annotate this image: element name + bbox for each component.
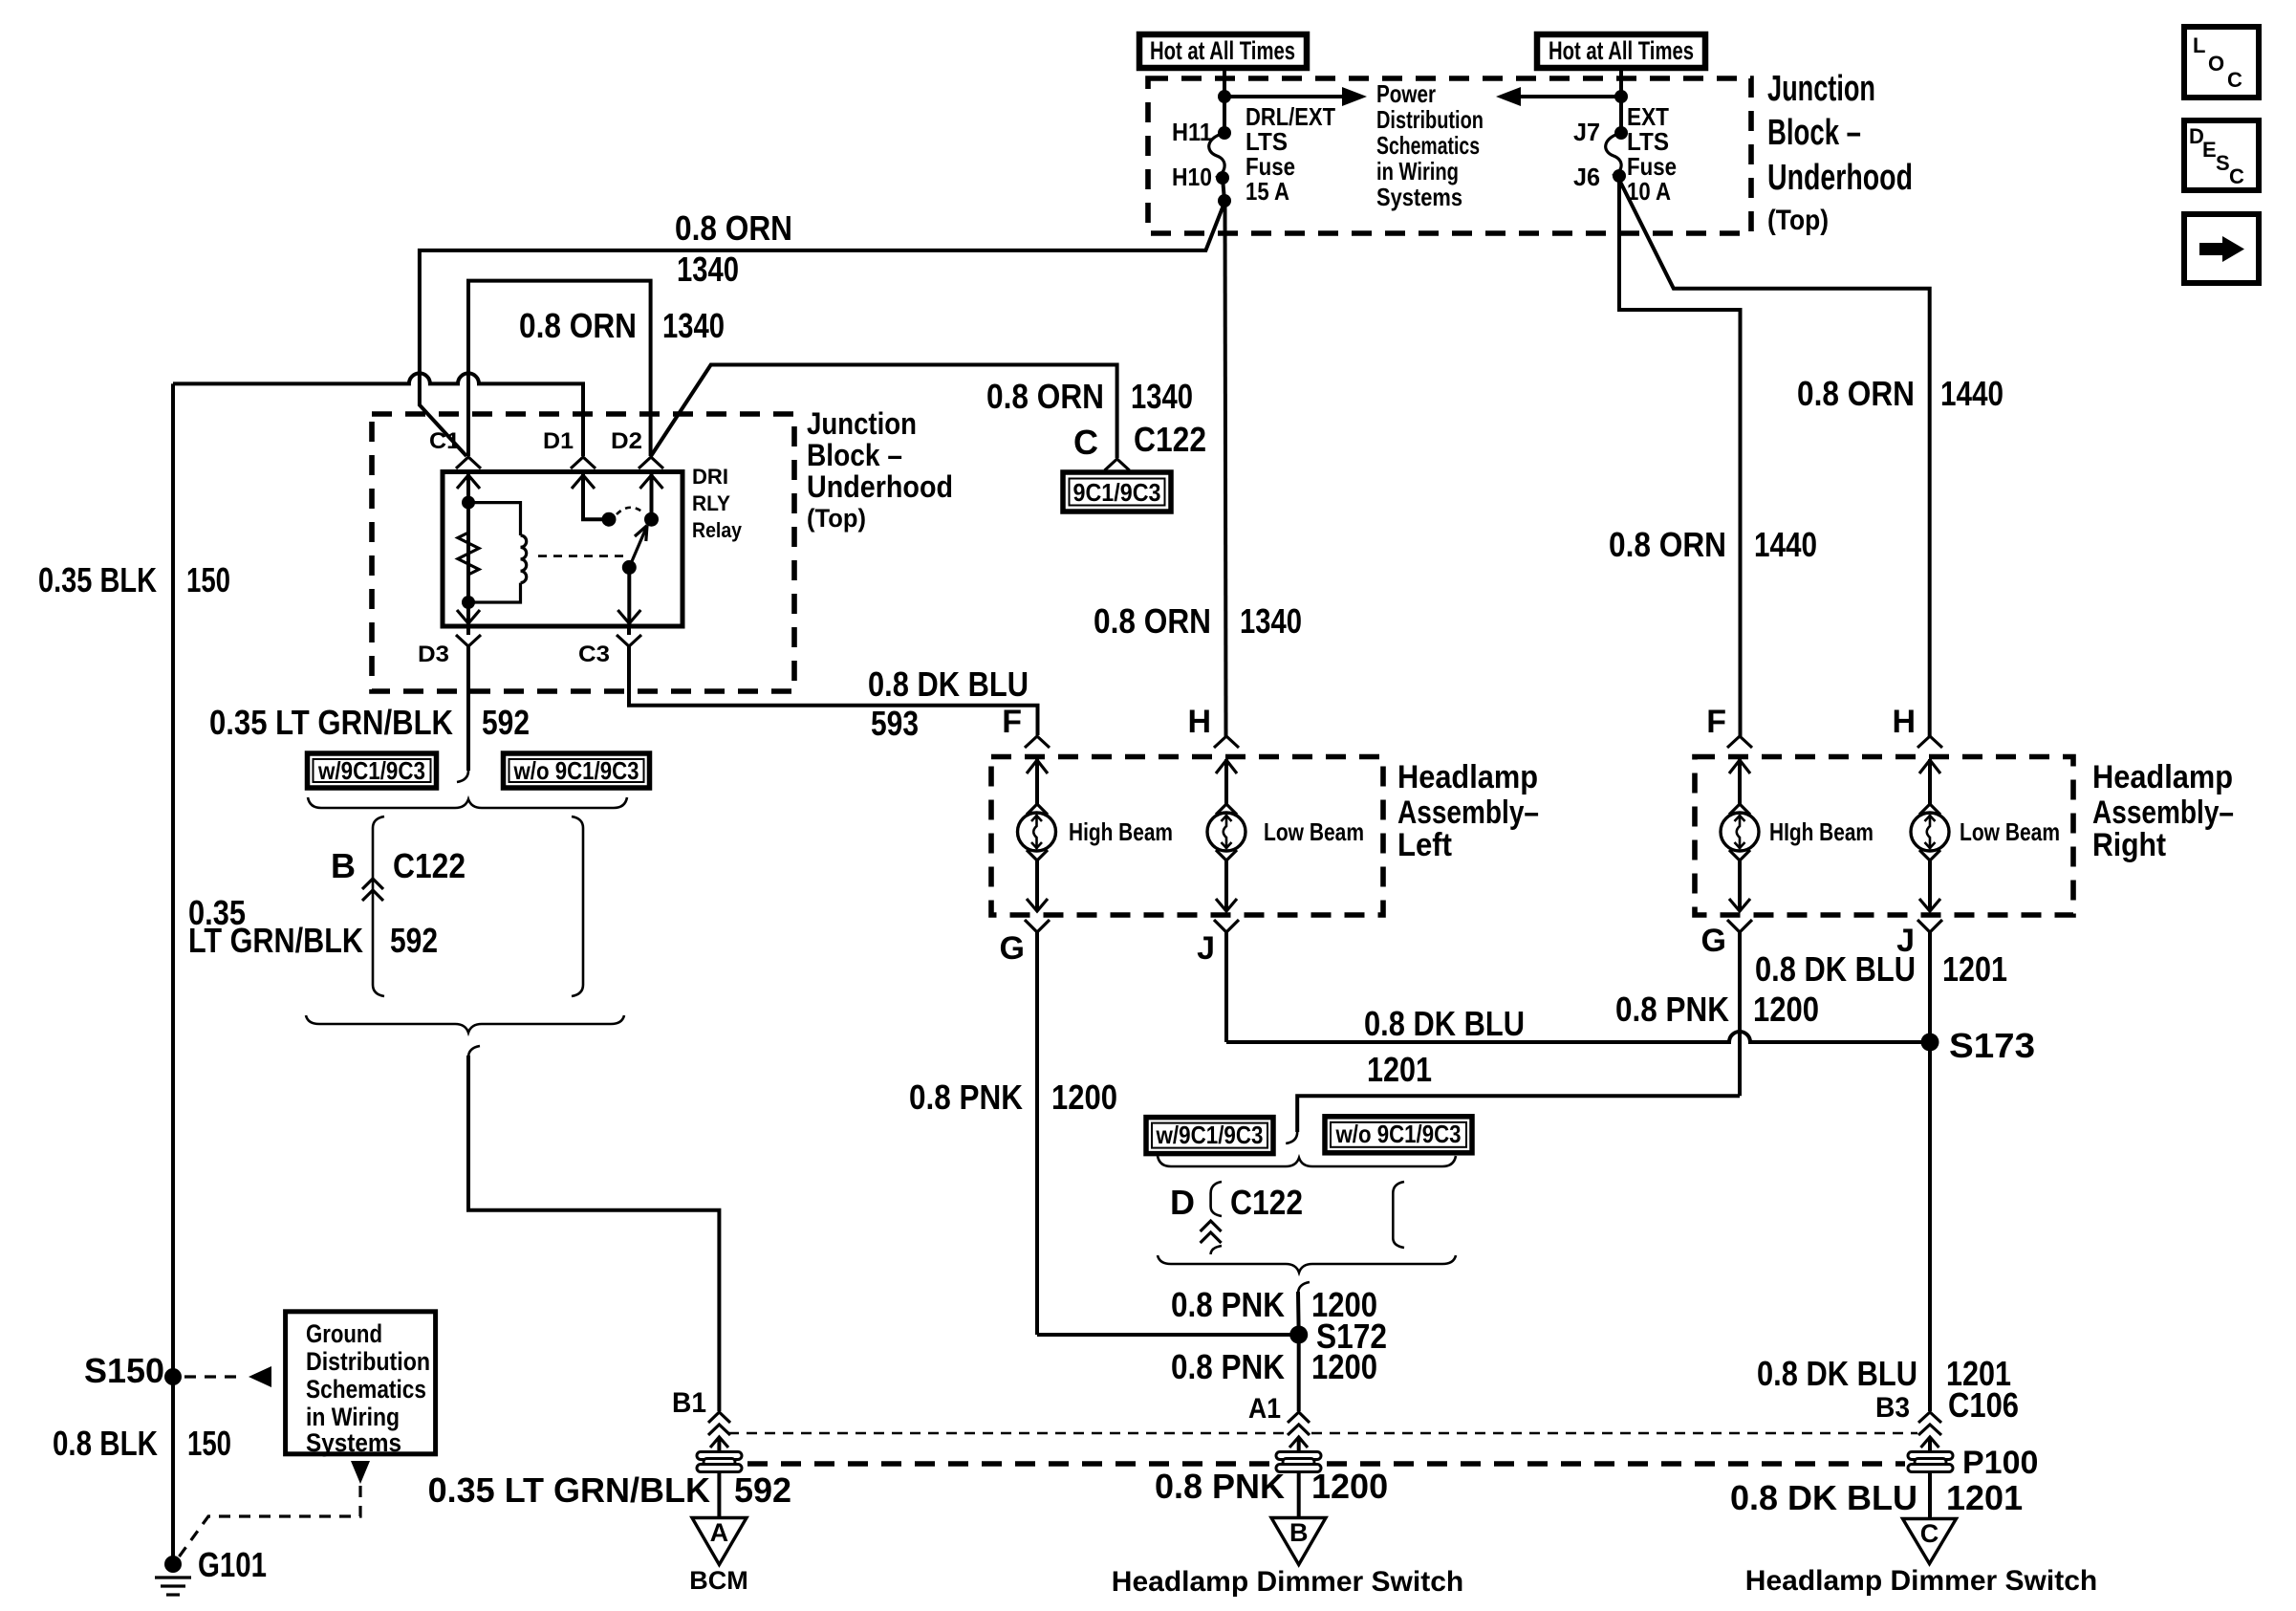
svg-text:J7: J7: [1573, 118, 1600, 146]
low beam bulb left: [1207, 759, 1245, 911]
svg-text:D1: D1: [543, 428, 574, 454]
svg-text:Headlamp Dimmer Switch: Headlamp Dimmer Switch: [1745, 1565, 2097, 1597]
svg-text:1440: 1440: [1754, 525, 1817, 564]
svg-text:1340: 1340: [1240, 601, 1302, 641]
wire down to S172: [1296, 1292, 1301, 1335]
svg-text:C: C: [1920, 1519, 1939, 1548]
w/o branch connector column (middle): [1393, 1182, 1404, 1248]
wire long vertical to left headlamp H: [1225, 201, 1226, 736]
high beam bulb left: [1018, 759, 1056, 911]
svg-text:1200: 1200: [1311, 1467, 1388, 1506]
svg-text:0.8 BLK: 0.8 BLK: [53, 1424, 158, 1463]
fuse name EXT LTS Fuse 10 A: [1627, 102, 1677, 206]
svg-text:0.8 DK BLU: 0.8 DK BLU: [1730, 1478, 1917, 1517]
dashed throw arc between switch contacts: [617, 508, 644, 514]
svg-text:Hot at All Times: Hot at All Times: [1549, 36, 1694, 65]
svg-text:w/o 9C1/9C3: w/o 9C1/9C3: [513, 756, 639, 785]
wire 0.8 ORN 1340 inverted U C1 to D2: [468, 281, 651, 456]
svg-text:w/o 9C1/9C3: w/o 9C1/9C3: [1335, 1120, 1462, 1148]
firewall thick dashed line: [747, 1461, 1905, 1467]
svg-text:1201: 1201: [1367, 1050, 1432, 1089]
svg-text:RLY: RLY: [692, 491, 730, 515]
svg-text:1200: 1200: [1051, 1078, 1117, 1117]
svg-text:D3: D3: [418, 642, 449, 667]
arrow left to power distribution text: [1496, 87, 1621, 106]
label 0.8 PNK 1200 (below grommet): [1155, 1467, 1388, 1506]
svg-text:10 A: 10 A: [1627, 177, 1671, 206]
wire 0.8 ORN 1340 from fuse to relay C1: [420, 203, 1224, 456]
svg-text:0.8 DK BLU: 0.8 DK BLU: [868, 664, 1029, 704]
svg-text:High Beam: High Beam: [1069, 817, 1173, 846]
svg-text:Block –: Block –: [807, 438, 902, 472]
label 0.8 DK BLU 593: [868, 664, 1029, 743]
wire 0.35 BLK 150 left vertical: [171, 383, 175, 1564]
wire D2 diagonal up to C122 connector C: [651, 365, 1117, 459]
svg-text:G: G: [1000, 930, 1025, 967]
svg-text:1340: 1340: [1131, 377, 1193, 416]
label 0.35 LT GRN/BLK 592 (two line): [188, 893, 438, 960]
low beam bulb right: [1911, 759, 1949, 911]
svg-text:B: B: [331, 846, 356, 885]
svg-text:Power: Power: [1376, 79, 1436, 108]
svg-text:w/9C1/9C3: w/9C1/9C3: [1156, 1121, 1264, 1149]
label 0.35 LT GRN/BLK 592 (BCM): [428, 1470, 791, 1510]
forward arrow icon box: [2184, 214, 2259, 283]
junction block relay side label: [807, 406, 953, 533]
svg-text:9C1/9C3: 9C1/9C3: [1073, 478, 1161, 507]
svg-text:1340: 1340: [677, 250, 739, 289]
svg-text:0.8 PNK: 0.8 PNK: [1171, 1285, 1285, 1324]
9C1/9C3 tag box: [1063, 472, 1171, 512]
relay coil top node: [462, 496, 475, 510]
svg-text:Relay: Relay: [692, 518, 743, 542]
svg-text:0.8 ORN: 0.8 ORN: [1797, 374, 1915, 413]
svg-text:1200: 1200: [1311, 1347, 1377, 1386]
svg-text:C: C: [1073, 423, 1098, 462]
svg-text:w/9C1/9C3: w/9C1/9C3: [317, 756, 425, 785]
wire hot1 to fuse H11: [1223, 68, 1226, 133]
pin H chevron (left hl): [1214, 736, 1239, 748]
svg-text:(Top): (Top): [1767, 205, 1829, 236]
pin F chevron (right hl): [1727, 736, 1752, 748]
svg-text:0.8 PNK: 0.8 PNK: [1615, 990, 1729, 1029]
w/9C1/9C3 tag box (left): [308, 753, 437, 788]
svg-text:0.8 ORN: 0.8 ORN: [1609, 525, 1726, 564]
svg-text:C: C: [2229, 164, 2244, 188]
svg-text:Underhood: Underhood: [807, 469, 953, 504]
svg-text:O: O: [2208, 52, 2224, 76]
svg-text:592: 592: [482, 703, 530, 742]
DESC icon box: [2184, 120, 2259, 190]
B3 connector chevrons and arrow: [1918, 1412, 1941, 1450]
wire J6 diagonal to right headlamp H feed: [1619, 180, 1930, 736]
svg-text:H: H: [1187, 704, 1211, 740]
B1 pass-through grommet: [697, 1452, 742, 1472]
svg-text:0.8 ORN: 0.8 ORN: [675, 208, 792, 248]
svg-text:0.8 DK BLU: 0.8 DK BLU: [1757, 1354, 1917, 1393]
svg-text:HIgh Beam: HIgh Beam: [1769, 817, 1874, 846]
svg-text:S173: S173: [1949, 1026, 2035, 1065]
junction block underhood (top) dashed box: [1148, 78, 1751, 233]
D C122 connector column: [1201, 1182, 1222, 1254]
label 0.8 ORN 1340 (C122 wire): [986, 377, 1193, 416]
svg-text:J: J: [1197, 930, 1215, 967]
A1 pass-through grommet: [1276, 1452, 1321, 1472]
power distribution schematics text: [1376, 79, 1484, 211]
svg-text:S150: S150: [84, 1351, 164, 1390]
svg-text:592: 592: [734, 1470, 791, 1510]
upper brace of C122 variants (left): [308, 797, 627, 808]
fuse name DRL/EXT LTS Fuse 15 A: [1245, 102, 1335, 206]
coil inside relay: [468, 503, 527, 602]
svg-text:B3: B3: [1875, 1392, 1910, 1424]
wire 0.8 DK BLU 1201 left J to S173 with hop: [1226, 1032, 1930, 1042]
pin C1 chevron: [456, 457, 481, 468]
wire 592 down to BCM B1: [468, 1056, 719, 1411]
label D C122: [1170, 1183, 1303, 1222]
relay coil bottom node: [462, 596, 475, 609]
label 0.8 PNK 1200 (below S172): [1171, 1347, 1377, 1386]
svg-text:Schematics: Schematics: [306, 1375, 426, 1404]
svg-text:C122: C122: [1134, 420, 1206, 459]
wire grommet to BCM triangle: [717, 1472, 721, 1519]
svg-text:Left: Left: [1397, 827, 1452, 863]
label B C122: [331, 846, 466, 885]
svg-text:Low Beam: Low Beam: [1264, 817, 1364, 846]
pin label B3 C106: [1875, 1385, 2019, 1425]
pin D3 chevron: [456, 626, 481, 646]
fuse DRL/EXT LTS 15A symbol: [1209, 126, 1231, 185]
fuse EXT LTS 10A symbol: [1606, 126, 1628, 183]
svg-text:F: F: [1706, 704, 1726, 740]
svg-text:0.8 PNK: 0.8 PNK: [1171, 1347, 1285, 1386]
svg-text:0.8 PNK: 0.8 PNK: [909, 1078, 1023, 1117]
label 0.8 ORN 1440 (right headlamp H feed): [1797, 374, 2004, 413]
relay C3 internal line: [617, 560, 640, 624]
firewall fine dashed line: [728, 1432, 1917, 1435]
pin J chevron (left hl): [1214, 920, 1239, 1042]
lower brace of C122 variants (middle): [1158, 1255, 1456, 1273]
headlamp assembly right dashed box: [1695, 757, 2073, 916]
svg-text:H11: H11: [1172, 118, 1212, 146]
wire end curl above C122 D: [1286, 1132, 1297, 1143]
svg-text:D2: D2: [611, 428, 642, 454]
pin C3 chevron: [617, 626, 641, 646]
wire end curl below middle brace: [1298, 1282, 1310, 1294]
svg-text:BCM: BCM: [689, 1566, 748, 1595]
label 0.8 BLK 150: [53, 1424, 231, 1463]
svg-text:1200: 1200: [1753, 990, 1819, 1029]
svg-text:0.35 LT GRN/BLK: 0.35 LT GRN/BLK: [209, 703, 453, 742]
svg-text:S: S: [2216, 151, 2230, 175]
label 0.8 PNK 1200 (right G): [1615, 990, 1819, 1029]
label 0.8 ORN 1440 (right headlamp F feed): [1609, 525, 1817, 564]
w/o 9C1/9C3 tag box (left): [504, 753, 650, 788]
label 0.8 ORN 1340 (top long wire): [675, 208, 792, 289]
relay D1 internal line to switch pivot: [572, 474, 617, 527]
svg-text:in Wiring: in Wiring: [306, 1403, 400, 1431]
label 0.8 DK BLU 1201 (below P100): [1730, 1478, 2023, 1517]
w/o branch connector column (left): [572, 816, 583, 996]
wire hot2 to fuse J7: [1619, 68, 1623, 133]
svg-text:150: 150: [187, 1424, 231, 1463]
splice S172: [1289, 1317, 1387, 1356]
svg-text:Block –: Block –: [1767, 113, 1861, 153]
svg-text:0.35 BLK: 0.35 BLK: [38, 560, 157, 599]
svg-text:D: D: [1170, 1183, 1195, 1222]
dashed arrow ground box down to G101: [178, 1461, 370, 1558]
svg-text:Headlamp: Headlamp: [1397, 759, 1538, 795]
high beam bulb right: [1721, 759, 1759, 911]
svg-text:Junction: Junction: [807, 406, 917, 441]
label C C122: [1073, 420, 1206, 462]
hot at all times box 2: [1537, 34, 1705, 68]
label 0.35 BLK 150: [38, 560, 230, 599]
svg-text:LT GRN/BLK: LT GRN/BLK: [188, 921, 363, 960]
w/9C1/9C3 tag box (middle): [1146, 1118, 1273, 1154]
node above J7: [1614, 90, 1628, 103]
svg-text:1201: 1201: [1946, 1354, 2011, 1393]
label 0.8 ORN 1340 (U wire): [519, 306, 725, 345]
w/o 9C1/9C3 tag box (middle): [1325, 1117, 1472, 1153]
LOC icon box: [2184, 27, 2259, 98]
svg-text:C: C: [2227, 68, 2242, 92]
svg-text:E: E: [2202, 138, 2217, 162]
junction block relay dashed box: [372, 414, 794, 691]
svg-text:L: L: [2193, 33, 2205, 57]
label 0.8 ORN 1340 (left headlamp H feed): [1094, 601, 1302, 641]
svg-text:G: G: [1701, 923, 1726, 959]
svg-text:0.8 ORN: 0.8 ORN: [1094, 601, 1211, 641]
headlamp assembly right label: [2092, 759, 2234, 863]
svg-text:H: H: [1892, 704, 1916, 740]
svg-text:A: A: [710, 1518, 729, 1547]
label 0.8 DK BLU 1201 (above B3): [1757, 1354, 2011, 1393]
pin G chevron (right hl): [1727, 920, 1752, 1096]
P100 pass-through grommet: [1908, 1452, 1953, 1472]
pin H chevron (right hl): [1917, 736, 1942, 748]
wire H10 down to junction: [1223, 178, 1224, 201]
label 0.35 LT GRN/BLK 592 (at D3): [209, 703, 530, 742]
pin D2 chevron: [639, 457, 663, 468]
wire J6 to right headlamp F feed: [1619, 176, 1741, 736]
svg-text:P100: P100: [1962, 1445, 2038, 1481]
arrow to power distribution text: [1224, 87, 1367, 106]
svg-text:0.8 PNK: 0.8 PNK: [1155, 1467, 1285, 1506]
svg-text:1440: 1440: [1940, 374, 2004, 413]
upper brace of C122 variants (middle): [1158, 1156, 1456, 1166]
relay name DRI RLY Relay: [692, 465, 743, 542]
svg-text:Underhood: Underhood: [1767, 158, 1913, 198]
svg-text:G101: G101: [198, 1545, 267, 1584]
relay DRI RLY box: [443, 472, 682, 627]
label 0.8 DK BLU 1201 (right J): [1755, 949, 2007, 989]
pin G chevron (left hl): [1025, 920, 1050, 1335]
pin F chevron (left hl): [1025, 736, 1050, 748]
label 0.8 PNK 1200 (left G wire): [909, 1078, 1117, 1117]
wire grommet to dimmer switch triangle B: [1297, 1472, 1301, 1519]
wire D3 down to C122 area: [466, 646, 470, 771]
wire S173 down to B3: [1928, 1042, 1932, 1411]
splice S150: [84, 1351, 182, 1390]
splice S173: [1921, 1026, 2036, 1065]
headlamp assembly left label: [1397, 759, 1539, 863]
svg-text:C122: C122: [1230, 1183, 1303, 1222]
svg-text:Hot at All Times: Hot at All Times: [1150, 36, 1295, 65]
svg-text:(Top): (Top): [807, 504, 866, 533]
svg-text:Distribution: Distribution: [306, 1347, 430, 1376]
svg-text:B: B: [1289, 1518, 1309, 1547]
node below fuse: [1218, 194, 1231, 207]
svg-text:J6: J6: [1573, 163, 1600, 191]
wire right G down and left to C122 D area: [1297, 1096, 1740, 1132]
dimmer switch triangle connector C: [1903, 1519, 1957, 1564]
svg-text:15 A: 15 A: [1245, 177, 1289, 206]
pin J chevron (right hl): [1917, 920, 1942, 1042]
svg-text:592: 592: [390, 921, 438, 960]
node dot above H11: [1218, 90, 1231, 103]
wire S172 down to A1: [1297, 1335, 1301, 1411]
resistor inside relay: [458, 528, 479, 580]
svg-text:Systems: Systems: [1376, 183, 1462, 211]
label 0.8 DK BLU 1201 (horizontal): [1364, 1004, 1525, 1089]
svg-text:Headlamp Dimmer Switch: Headlamp Dimmer Switch: [1112, 1566, 1463, 1598]
junction block label (top): [1767, 69, 1913, 236]
pin D1 chevron: [571, 457, 596, 468]
svg-text:DRI: DRI: [692, 465, 728, 489]
svg-text:C3: C3: [578, 642, 610, 667]
svg-text:Assembly–: Assembly–: [2092, 795, 2234, 831]
svg-text:B1: B1: [672, 1387, 706, 1419]
svg-text:C122: C122: [393, 846, 466, 885]
wire from BLK top corner to relay D1 with hops: [173, 373, 583, 456]
ground G101: [155, 1545, 267, 1595]
svg-text:0.8 DK BLU: 0.8 DK BLU: [1364, 1004, 1525, 1043]
dimmer switch triangle connector B: [1271, 1518, 1326, 1565]
svg-text:Ground: Ground: [306, 1319, 382, 1348]
dashed arrow S150 to ground distribution box: [184, 1366, 271, 1387]
dashed mechanical link coil to lever: [538, 555, 623, 557]
wire C3 to left headlamp F: [629, 646, 1038, 735]
svg-text:593: 593: [871, 704, 919, 743]
svg-text:Assembly–: Assembly–: [1397, 795, 1539, 831]
wire grommet to dimmer switch triangle C: [1928, 1472, 1932, 1520]
headlamp assembly left dashed box: [991, 757, 1383, 916]
wire end curl below brace: [468, 1046, 480, 1057]
relay D2 internal line: [640, 474, 663, 527]
svg-text:A1: A1: [1248, 1393, 1281, 1425]
svg-text:150: 150: [186, 560, 230, 599]
svg-text:0.8 ORN: 0.8 ORN: [519, 306, 637, 345]
ground distribution schematics box: [286, 1312, 436, 1457]
lower brace of C122 variants (left): [306, 1015, 624, 1033]
B C122 connector column: [362, 816, 384, 996]
relay C1 internal line with arrows: [457, 474, 480, 624]
svg-text:Low Beam: Low Beam: [1960, 817, 2060, 846]
svg-text:Systems: Systems: [306, 1428, 401, 1457]
hot at all times box 1: [1139, 34, 1307, 68]
svg-text:0.8 DK BLU: 0.8 DK BLU: [1755, 949, 1916, 989]
svg-text:0.8 ORN: 0.8 ORN: [986, 377, 1104, 416]
svg-text:C1: C1: [429, 428, 460, 454]
svg-text:1340: 1340: [662, 306, 725, 345]
BCM triangle connector A: [692, 1518, 747, 1565]
label 0.8 PNK 1200 (above S172): [1171, 1285, 1377, 1324]
svg-text:Distribution: Distribution: [1376, 105, 1484, 134]
svg-text:1201: 1201: [1946, 1478, 2023, 1517]
svg-text:in Wiring: in Wiring: [1376, 157, 1459, 185]
wire left G to splice S172: [1037, 1333, 1292, 1337]
B1 connector chevrons and arrow: [708, 1412, 730, 1450]
A1 connector chevrons and arrow: [1288, 1412, 1310, 1450]
svg-text:Right: Right: [2092, 827, 2166, 863]
svg-text:Schematics: Schematics: [1376, 131, 1480, 160]
svg-text:F: F: [1002, 704, 1022, 740]
svg-text:0.35 LT GRN/BLK: 0.35 LT GRN/BLK: [428, 1470, 710, 1510]
svg-text:1201: 1201: [1942, 949, 2007, 989]
svg-text:H10: H10: [1172, 163, 1212, 191]
connector C of C122 chevron: [1105, 459, 1130, 470]
switch lever with arrowhead: [629, 526, 647, 568]
svg-text:Headlamp: Headlamp: [2092, 759, 2233, 795]
svg-text:Junction: Junction: [1767, 69, 1875, 109]
wire end curl at C122 merge: [457, 771, 468, 782]
